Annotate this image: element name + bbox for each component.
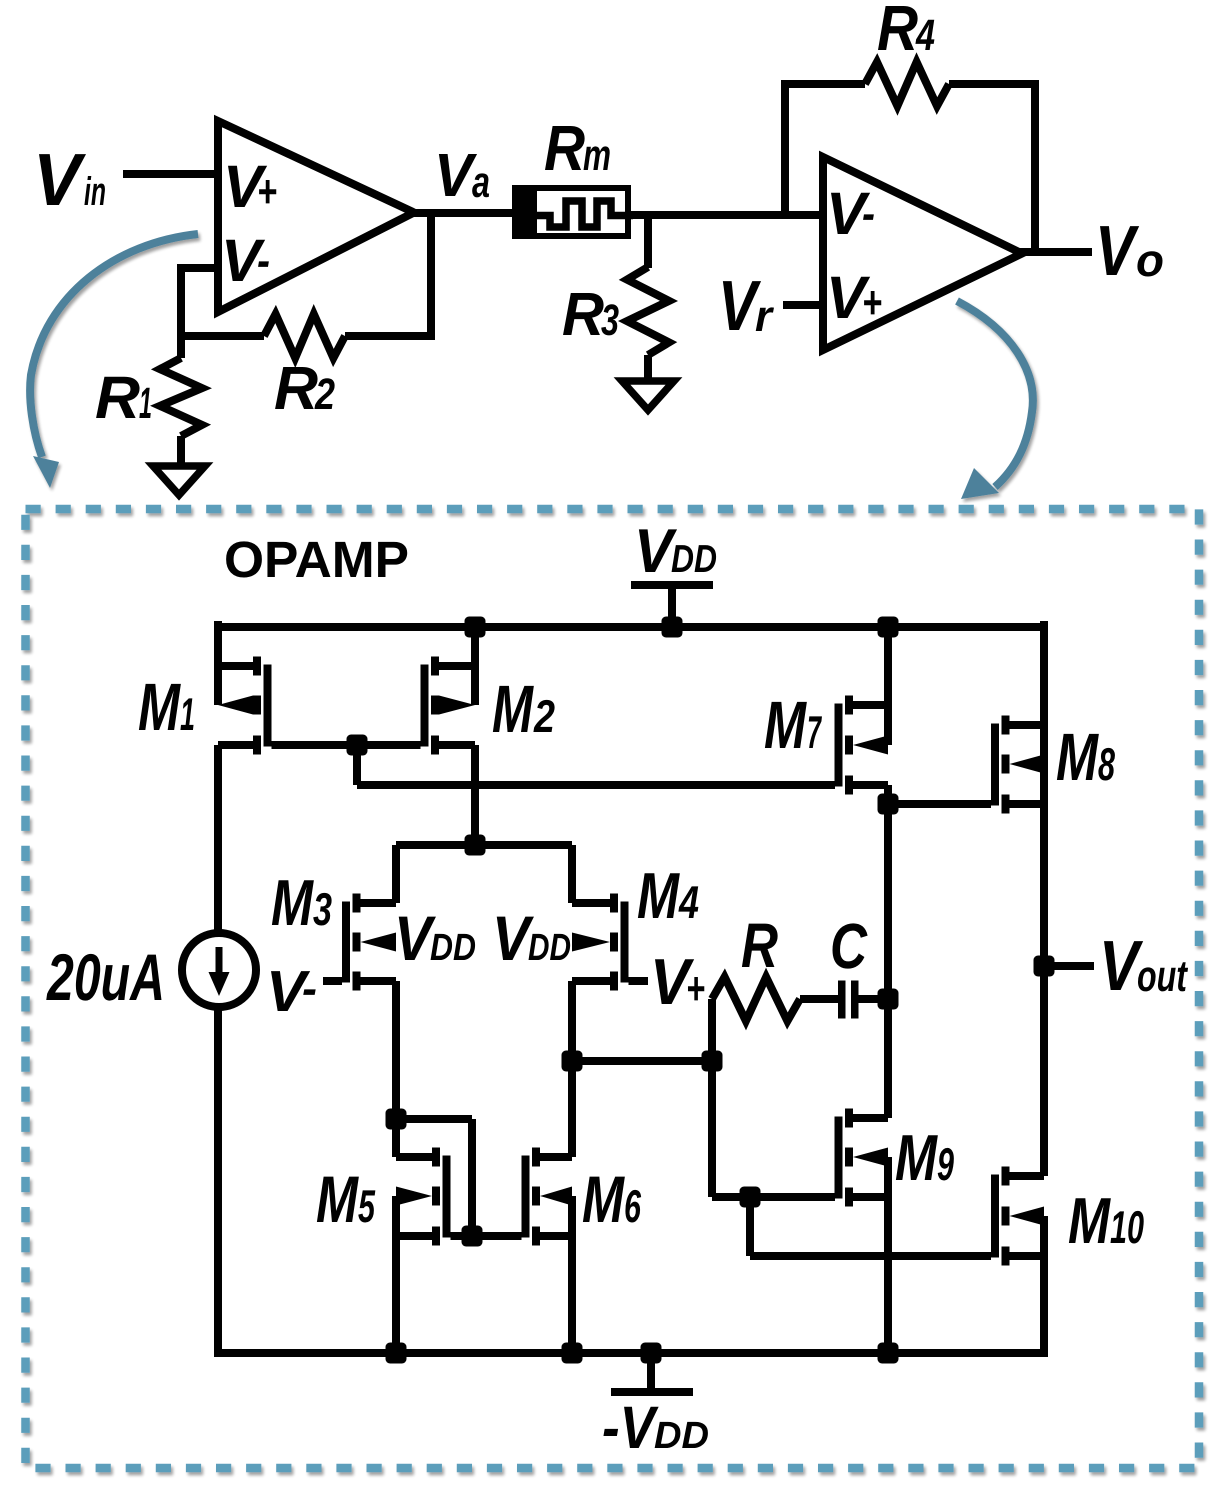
node C / M9 drain chain xyxy=(878,989,899,1010)
-VDD supply tick xyxy=(647,1353,655,1392)
transistor M1 xyxy=(253,657,261,676)
wire M2 drain down to tail node xyxy=(471,745,479,845)
transistor M4 xyxy=(610,894,618,913)
svg-text:V: V xyxy=(434,141,477,209)
wire output feedback drop xyxy=(427,213,435,336)
op-amp A2 (top-right amplifier) xyxy=(823,157,1022,350)
wire Vin input xyxy=(123,170,218,178)
capacitor C plates xyxy=(838,981,846,1019)
wire R4 top left segment xyxy=(781,80,865,88)
memristor Rm square-wave glyph xyxy=(537,201,633,227)
wire M2 source to rail xyxy=(471,625,479,705)
wire R4 right riser to output xyxy=(1031,84,1039,252)
wire Vout stub xyxy=(1044,962,1094,970)
svg-text:3: 3 xyxy=(313,883,332,935)
svg-text:M: M xyxy=(316,1162,360,1236)
svg-text:r: r xyxy=(755,292,775,341)
wire M9 bulk/source down to rail xyxy=(884,1157,892,1357)
wire R4 feedback left riser xyxy=(781,84,789,213)
svg-text:OPAMP: OPAMP xyxy=(224,531,409,588)
svg-text:M: M xyxy=(492,672,534,747)
svg-text:M: M xyxy=(1068,1184,1111,1257)
svg-text:R: R xyxy=(95,364,140,431)
wire M8 drain chain down to M10 xyxy=(1040,764,1048,1176)
svg-text:4: 4 xyxy=(678,876,699,928)
svg-text:in: in xyxy=(84,170,106,214)
wire M10 gate branch right xyxy=(750,1252,991,1260)
svg-text:8: 8 xyxy=(1098,738,1115,790)
svg-text:+: + xyxy=(257,165,277,217)
resistor R1 xyxy=(160,358,202,436)
svg-text:-: - xyxy=(862,187,875,239)
svg-text:4: 4 xyxy=(915,11,935,60)
node M7 drain / M8 gate xyxy=(878,794,899,815)
svg-text:R: R xyxy=(877,0,918,64)
node M3/M5 drain mirror xyxy=(386,1109,407,1130)
svg-text:C: C xyxy=(830,910,868,982)
wire V- input stub of A1 xyxy=(181,268,218,340)
current source arrow xyxy=(216,947,223,976)
wire M8 gate lead xyxy=(888,800,991,808)
svg-text:out: out xyxy=(1137,952,1189,1001)
node RC branch tee xyxy=(702,1051,723,1072)
node second-stage takeoff xyxy=(562,1051,583,1072)
transistor M5 xyxy=(432,1148,440,1167)
wire M1 source to rail xyxy=(214,621,222,705)
svg-text:20uA: 20uA xyxy=(46,940,165,1014)
transistor M7 xyxy=(845,696,853,715)
resistor R3 bottom lead xyxy=(644,355,652,382)
svg-text:o: o xyxy=(1136,234,1164,286)
svg-text:M: M xyxy=(637,859,680,932)
resistor R (compensation) xyxy=(712,977,800,1021)
resistor R4 xyxy=(865,62,949,106)
wire mirror node down to M5/M6 gates xyxy=(468,1119,476,1236)
teal callout arrow from op-amp 1 into dashed box xyxy=(30,234,198,488)
svg-text:M: M xyxy=(582,1162,626,1236)
svg-text:2: 2 xyxy=(314,370,335,419)
svg-text:V: V xyxy=(33,138,86,221)
op-amp A1 (top-left amplifier) xyxy=(218,121,414,312)
svg-text:1: 1 xyxy=(139,379,152,428)
svg-text:m: m xyxy=(583,131,611,180)
wire Va: A1 output to memristor xyxy=(410,209,512,217)
wire M10 bulk/source down to rail right corner xyxy=(1040,1216,1048,1357)
svg-text:DD: DD xyxy=(430,927,476,969)
wire M6 bulk/source down to rail xyxy=(568,1196,576,1357)
svg-text:DD: DD xyxy=(528,927,571,969)
svg-text:DD: DD xyxy=(654,1415,709,1457)
transistor M9 xyxy=(845,1109,853,1128)
svg-text:-V: -V xyxy=(602,1394,659,1461)
wire mirror node right xyxy=(396,1115,472,1123)
wire tail to M3 source xyxy=(392,845,400,903)
resistor R3 xyxy=(627,267,669,355)
resistor R1 bottom lead xyxy=(177,436,185,467)
wire tail to M4 source xyxy=(568,845,576,903)
svg-text:M: M xyxy=(1056,720,1099,795)
ground under R1 xyxy=(153,466,205,495)
svg-text:+: + xyxy=(686,962,705,1014)
svg-text:2: 2 xyxy=(533,690,555,742)
svg-text:R: R xyxy=(274,354,318,422)
top VDD rail xyxy=(218,623,1044,631)
svg-text:R: R xyxy=(741,911,778,981)
wire A2 output Vo xyxy=(1018,248,1092,256)
svg-text:10: 10 xyxy=(1110,1201,1144,1253)
svg-text:a: a xyxy=(472,158,490,207)
wire C to M9 drain chain xyxy=(859,995,889,1003)
node M5/M6 gate tie xyxy=(462,1226,483,1247)
node rail/VDD tick xyxy=(662,617,683,638)
node rail/M5 xyxy=(386,1343,407,1364)
svg-text:-: - xyxy=(257,234,270,286)
svg-text:6: 6 xyxy=(624,1180,641,1232)
svg-text:M: M xyxy=(271,866,314,939)
svg-text:7: 7 xyxy=(807,706,822,758)
wire M7 drain down / M9 drain chain xyxy=(884,785,892,1118)
wire gate net M1/M2 down xyxy=(353,745,361,785)
svg-text:DD: DD xyxy=(671,538,717,581)
wire M7 source to rail xyxy=(884,627,892,745)
svg-text:+: + xyxy=(862,276,882,328)
svg-text:V: V xyxy=(1095,212,1140,291)
resistor R2 xyxy=(264,314,345,358)
svg-text:5: 5 xyxy=(358,1180,376,1232)
svg-text:M: M xyxy=(895,1121,938,1194)
svg-text:-: - xyxy=(302,962,317,1014)
wire M5 bulk/source down to rail xyxy=(392,1196,400,1357)
node gate-net M1/M2 xyxy=(347,735,368,756)
dashed box: OPAMP internals boundary xyxy=(26,509,1200,1468)
node rail/M2 source xyxy=(465,617,486,638)
svg-text:M: M xyxy=(138,670,181,745)
node Vout tap xyxy=(1034,956,1055,977)
wire gate net to M7 gate xyxy=(357,781,835,789)
resistor R3 top lead xyxy=(644,215,652,268)
wire current source to bottom rail xyxy=(214,1007,222,1357)
VDD supply bar xyxy=(631,581,713,589)
memristor Rm body xyxy=(515,188,628,236)
current source 20uA circle xyxy=(182,933,256,1007)
resistor R1 top lead xyxy=(177,336,185,358)
svg-text:1: 1 xyxy=(180,688,195,740)
wire R2 to output drop xyxy=(345,332,435,340)
bottom -VDD rail xyxy=(218,1349,1044,1357)
svg-text:R: R xyxy=(562,280,604,348)
wire diff-pair tail horizontal xyxy=(396,841,572,849)
svg-text:M: M xyxy=(764,688,807,763)
wire R4 top right segment xyxy=(949,80,1039,88)
node rail/-VDD xyxy=(641,1343,662,1364)
memristor Rm filled electrode xyxy=(512,185,537,239)
node rail/M6 xyxy=(562,1343,583,1364)
-VDD supply bar xyxy=(611,1388,693,1396)
wire RC tee up to R / down to M9 gate xyxy=(708,999,716,1197)
node tail/M2 drain xyxy=(465,835,486,856)
wire M9 gate lead from RC tee xyxy=(712,1193,835,1201)
wire M3 drain down chain to M5 xyxy=(392,981,400,1157)
transistor M6 xyxy=(532,1148,540,1167)
teal callout arrow from op-amp 2 into dashed box xyxy=(957,301,1033,499)
wire M4 drain down chain to M6 xyxy=(568,981,576,1157)
transistor M2 xyxy=(431,657,439,676)
wire second-stage node to RC branch xyxy=(572,1057,712,1065)
wire M10 gate branch down xyxy=(746,1197,754,1256)
svg-text:3: 3 xyxy=(601,296,619,345)
wire rail right corner to M8 source xyxy=(1040,621,1048,764)
wire memristor to A2 V- input xyxy=(628,211,823,219)
svg-text:R: R xyxy=(544,112,585,184)
wire R to C xyxy=(800,995,838,1003)
node rail/M7 source xyxy=(878,617,899,638)
node M9 gate / M10 gate branch xyxy=(740,1187,761,1208)
transistor M3 xyxy=(353,894,361,913)
wire Vr input xyxy=(783,301,823,309)
VDD supply tick xyxy=(668,585,676,627)
node rail/M9 source xyxy=(878,1343,899,1364)
wire feedback node to R2 line xyxy=(177,332,264,340)
wire M1 drain down to current source xyxy=(214,745,222,933)
transistor M8 xyxy=(1002,716,1010,735)
svg-text:9: 9 xyxy=(937,1138,954,1190)
transistor M10 xyxy=(1002,1167,1010,1186)
ground under R3 xyxy=(622,381,674,410)
